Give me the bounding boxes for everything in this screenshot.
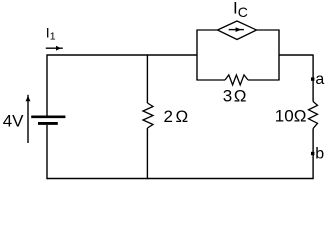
battery source 4V bbox=[31, 117, 65, 124]
wire left vertical upper bbox=[46, 55, 48, 117]
resistor 2 ohm bbox=[143, 103, 153, 128]
svg-text:b: b bbox=[315, 146, 324, 163]
svg-text:Ω: Ω bbox=[234, 86, 247, 105]
node a dot bbox=[311, 77, 314, 80]
resistor 3 ohm bbox=[225, 75, 248, 85]
wire right vertical lower bbox=[312, 129, 314, 180]
wire right vertical upper bbox=[312, 55, 314, 102]
wire bottom branch left stub bbox=[196, 79, 225, 81]
resistor 10 ohm bbox=[309, 102, 318, 129]
svg-text:I1: I1 bbox=[46, 25, 56, 43]
wire top rail left bbox=[47, 54, 198, 56]
wire top branch left stub bbox=[196, 29, 217, 31]
svg-text:IC: IC bbox=[233, 0, 248, 20]
wire 2-ohm branch upper bbox=[146, 55, 148, 104]
voltage arrow for 4V bbox=[26, 95, 31, 143]
parallel box left edge wire bbox=[196, 30, 198, 80]
svg-text:2: 2 bbox=[164, 107, 173, 126]
current arrow I1 bbox=[46, 46, 63, 51]
svg-text:4V: 4V bbox=[3, 111, 24, 130]
svg-text:3: 3 bbox=[223, 86, 232, 105]
wire bottom branch right stub bbox=[248, 79, 280, 81]
wire left vertical lower bbox=[46, 125, 48, 179]
parallel box right edge wire bbox=[278, 30, 280, 80]
wire top rail right bbox=[279, 54, 313, 56]
bottom rail wire bbox=[47, 178, 314, 180]
node b dot bbox=[311, 152, 314, 155]
arrow inside current source bbox=[229, 27, 244, 32]
svg-text:Ω: Ω bbox=[176, 107, 189, 126]
svg-text:10Ω: 10Ω bbox=[275, 106, 307, 125]
wire 2-ohm branch lower bbox=[146, 128, 148, 179]
svg-text:a: a bbox=[315, 71, 324, 88]
wire top branch right stub bbox=[257, 29, 280, 31]
dependent current source Ic diamond bbox=[218, 21, 257, 40]
